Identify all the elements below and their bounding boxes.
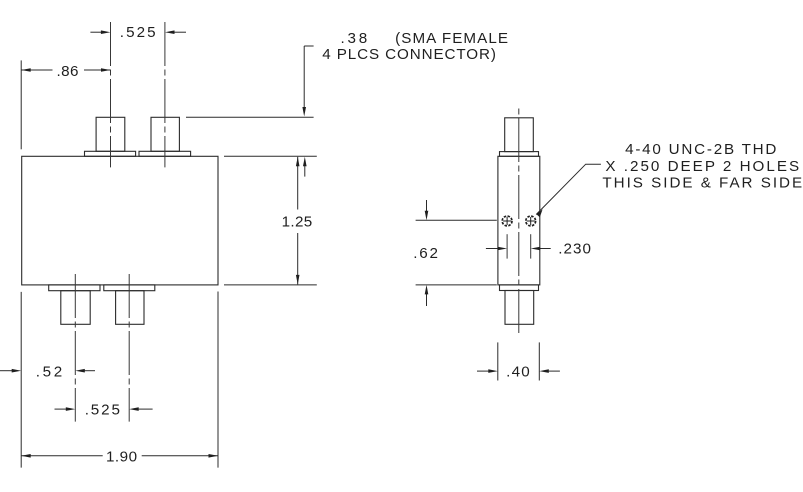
arrowhead .525 top right <box>165 30 175 34</box>
dim .38 lower arrow tail <box>304 165 306 177</box>
extension line right bottom <box>217 292 219 468</box>
extension line body bottom level <box>224 284 317 286</box>
leader line to holes note <box>536 164 601 214</box>
arrowhead .52 right <box>75 369 85 373</box>
bottom connector C3 body <box>61 291 90 325</box>
svg-text:4-40 UNC-2B THD: 4-40 UNC-2B THD <box>625 141 776 158</box>
dim 1.90 left segment <box>21 455 103 457</box>
tapped hole H2 <box>526 216 536 226</box>
bottom connector C4 body <box>116 291 144 325</box>
extension line left top <box>20 60 22 149</box>
extension line below hole H1 <box>506 234 508 258</box>
centerline top connector C1 <box>110 22 112 167</box>
arrowhead .230 left <box>498 247 508 251</box>
dim .62 top arrow tail <box>426 200 428 212</box>
svg-text:(SMA FEMALE: (SMA FEMALE <box>395 30 508 47</box>
arrowhead .38 up <box>303 157 307 167</box>
bottom connector C3 flange <box>49 285 100 291</box>
svg-text:.525: .525 <box>120 24 156 41</box>
dim .38 bracket horizontal <box>304 45 313 47</box>
arrowhead .525 bottom left <box>66 407 76 411</box>
dim 1.90 right segment <box>142 455 218 457</box>
arrowhead .62 up <box>425 285 429 295</box>
arrowhead .86 left <box>21 68 31 72</box>
dim .62 bottom arrow tail <box>426 294 428 306</box>
dim .86 right segment <box>84 69 111 71</box>
arrowhead .525 bottom right <box>129 407 139 411</box>
arrowhead .38 down <box>302 107 306 117</box>
side view body <box>498 156 540 285</box>
arrowhead .52 left <box>12 369 22 373</box>
body outline front view <box>22 156 218 285</box>
dim .38 bracket vertical <box>303 46 305 109</box>
top connector C2 flange <box>139 151 191 156</box>
dim 1.25 line upper segment <box>297 157 299 210</box>
arrowhead .62 down <box>425 211 429 221</box>
dim .525 top right arrow tail <box>174 31 186 33</box>
dim .230 left arrow tail <box>486 248 498 250</box>
extension line .40 left <box>497 342 499 380</box>
dim .525 top left arrow tail <box>90 31 101 33</box>
arrowhead 1.90 left <box>21 454 31 458</box>
bottom connector C4 flange <box>104 285 155 291</box>
arrowhead .40 right <box>539 369 549 373</box>
dim 1.25 line lower segment <box>297 233 299 284</box>
svg-text:.52: .52 <box>36 363 63 380</box>
dim .52 right arrow tail <box>84 370 95 372</box>
centerline side view <box>518 105 520 336</box>
svg-text:.40: .40 <box>506 364 530 381</box>
arrowhead leader <box>536 209 542 217</box>
dim .525 bottom right arrow tail <box>138 408 153 410</box>
arrowhead 1.90 right <box>209 454 219 458</box>
side view top connector flange <box>500 152 539 157</box>
side view top connector body <box>505 118 534 152</box>
arrowhead 1.25 down <box>296 275 300 285</box>
centerline top connector C2 <box>164 22 166 167</box>
extension line connector top level <box>186 116 314 118</box>
arrowhead .525 top left <box>101 30 111 34</box>
svg-text:THIS SIDE & FAR SIDE: THIS SIDE & FAR SIDE <box>602 175 802 192</box>
svg-text:.86: .86 <box>57 63 79 80</box>
dim .230 right arrow tail <box>539 248 551 250</box>
extension line below hole H2 <box>530 234 532 258</box>
centerline bottom connector C4 <box>128 274 130 422</box>
extension line .40 right <box>538 342 540 380</box>
arrowhead .86 right <box>101 68 111 72</box>
extension line hole level side view <box>416 219 497 221</box>
svg-text:1.25: 1.25 <box>282 214 313 231</box>
tapped hole H1 <box>502 216 512 226</box>
svg-text:.38: .38 <box>341 30 368 47</box>
dim .86 left segment <box>21 69 52 71</box>
side view bottom connector body <box>505 291 534 325</box>
svg-text:4 PLCS CONNECTOR): 4 PLCS CONNECTOR) <box>322 46 496 63</box>
svg-text:X .250 DEEP 2 HOLES: X .250 DEEP 2 HOLES <box>605 158 799 175</box>
dim .52 left arrow tail <box>0 370 13 372</box>
svg-text:.62: .62 <box>413 245 438 262</box>
dim .40 right arrow tail <box>548 370 560 372</box>
extension line left bottom <box>20 292 22 468</box>
dim .525 bottom left arrow tail <box>55 408 67 410</box>
top connector C2 body <box>151 117 179 151</box>
arrowhead .40 left <box>488 369 498 373</box>
svg-text:1.90: 1.90 <box>106 448 137 465</box>
top connector C1 body <box>96 117 125 151</box>
top connector C1 flange <box>85 151 136 156</box>
arrowhead .230 right <box>531 247 541 251</box>
svg-text:.525: .525 <box>85 402 120 419</box>
extension line body top level <box>224 155 317 157</box>
extension line body bottom side view <box>416 284 497 286</box>
side view bottom connector flange <box>500 285 539 291</box>
svg-text:.230: .230 <box>558 240 591 257</box>
centerline bottom connector C3 <box>74 274 76 422</box>
dim .40 left arrow tail <box>477 370 489 372</box>
arrowhead 1.25 up <box>296 157 300 167</box>
